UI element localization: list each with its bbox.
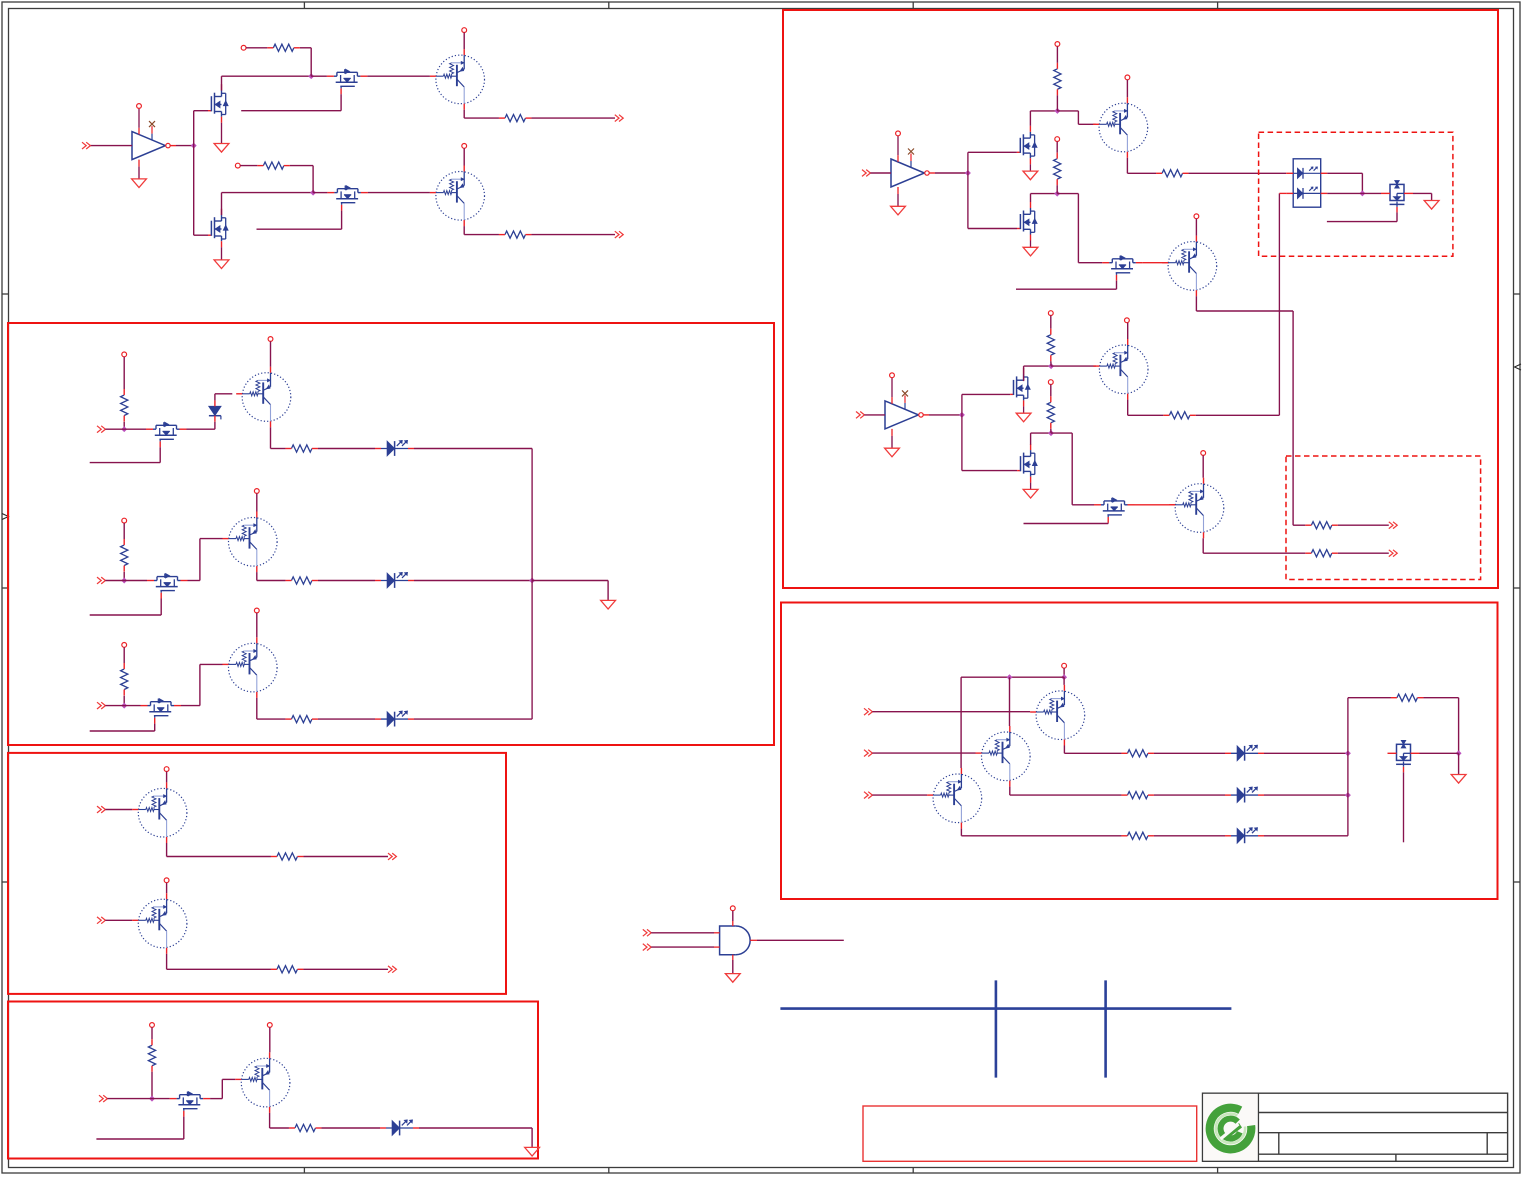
resistor R3a [1047, 329, 1054, 362]
wire U1 input [90, 145, 132, 147]
ground wire under M1 [221, 123, 223, 144]
wire CH2 MOSFET to Q4 base [188, 539, 223, 581]
transistor Q12 pre-biased [976, 726, 1031, 787]
ground wire under M3b [1030, 483, 1032, 490]
wire LED bus vertical [531, 449, 533, 720]
wire CH1 pull-up top [123, 357, 125, 389]
transistor Q10 pre-biased [1169, 478, 1224, 539]
resistor R15 [1121, 792, 1154, 799]
junction R2a node [1054, 108, 1060, 114]
wire M4 gate return [257, 211, 342, 230]
annotation red box [863, 1106, 1197, 1161]
ground bottom-right box [1451, 775, 1466, 784]
wire Q1 output corner [464, 110, 499, 118]
pin VCC R8 pull-up [150, 1023, 155, 1028]
wire Q2 output corner [464, 226, 499, 235]
wire CH1 input [105, 428, 146, 430]
wire bias bus [961, 676, 1064, 678]
wire Q2 emitter supply [463, 148, 465, 165]
wire U2 input [870, 172, 891, 174]
transistor CH1 MOSFET [146, 422, 187, 447]
resistor R2a [1054, 63, 1061, 96]
wire INB to base [105, 919, 132, 921]
wire to M3a gate [962, 393, 1010, 395]
resistor R17 [1391, 694, 1424, 701]
pin VCC Q10 [1201, 451, 1206, 456]
junction R3a node [1048, 363, 1054, 369]
wire Q10 supply [1202, 455, 1204, 477]
wire R3a bottom [1050, 361, 1052, 366]
junction U2 node [965, 170, 971, 176]
pin VCC R2b [1055, 137, 1060, 142]
wire U4 to ground [732, 960, 734, 974]
ground box4 [525, 1147, 540, 1156]
wire R17 down [1423, 698, 1458, 754]
transistor Q4 pre-biased [223, 512, 278, 573]
transistor CH3 MOSFET [141, 699, 182, 724]
ground U4 [725, 974, 740, 983]
transistor Q2 pre-biased [430, 166, 485, 227]
resistor R6 [285, 577, 318, 584]
wire QA output corner [167, 843, 271, 857]
pin VCC QB [164, 878, 169, 883]
resistor R2b [1054, 153, 1061, 186]
LED D6 [1225, 745, 1264, 761]
wire VCC stub [1063, 668, 1065, 677]
bus stub 2 [1104, 980, 1107, 1077]
transistor M10 MOSFET [1388, 741, 1420, 773]
wire M1 drain [222, 76, 312, 90]
wire drop to Q11 [1063, 677, 1065, 685]
wire M7 to Q8 base [1143, 262, 1169, 264]
wire INR1 to Q11 base [872, 711, 1030, 713]
wire Q6 supply [269, 1027, 271, 1052]
junction U1 out node [191, 143, 197, 149]
wire CH3 gate return [90, 724, 155, 731]
left border arrow marker [2, 514, 9, 520]
pin VCC CH3 pull-up [122, 643, 127, 648]
pin VCC Q4 [254, 489, 259, 494]
dashed region box 2 [1286, 456, 1481, 580]
transistor Q7 pre-biased [1093, 97, 1148, 158]
wire R11 to OUTR1 [1338, 524, 1389, 526]
wire Q1 emitter supply [463, 33, 465, 50]
resistor R9 [289, 1124, 322, 1131]
EasyEDA logo [1203, 1094, 1258, 1161]
buffer U2 [891, 131, 935, 206]
wire U3 input [864, 414, 885, 416]
junction R3b node [1048, 430, 1054, 436]
LED D8 [1225, 828, 1264, 844]
buffer U2 ground [891, 206, 906, 215]
LED D7 [1225, 787, 1264, 803]
wire RA to OUTA [303, 856, 388, 858]
junction column 1 [1345, 750, 1351, 756]
AND gate U4 [714, 921, 757, 960]
resistor RA [271, 853, 304, 860]
bus stub 1 [995, 980, 998, 1077]
resistor R11 [1305, 522, 1338, 529]
junction R3/M3 node [310, 190, 316, 196]
wire to M2 gate [311, 75, 327, 77]
wire U4 output [757, 939, 844, 941]
LED D5 [380, 1120, 419, 1136]
wire RB to OUTB [303, 968, 388, 970]
wire Q9 output [1128, 400, 1164, 416]
wire CH3 pull-up bottom [123, 696, 125, 706]
wire Q9 supply [1127, 323, 1129, 339]
transistor CH2 MOSFET [147, 574, 188, 599]
wire gate trunk 3 [961, 394, 963, 470]
wire CH2 gate return [90, 599, 162, 616]
wire Q5 supply [256, 613, 258, 637]
wire R3b bottom [1050, 429, 1052, 433]
wire QA supply [166, 772, 168, 783]
wire M10 to node [1420, 752, 1459, 754]
transistor Q6 pre-biased [235, 1052, 290, 1113]
wire R7 to LED3 [318, 718, 375, 720]
port OUTR2 [1389, 550, 1397, 557]
wire U3 out [929, 414, 962, 416]
wire R1 to node [300, 48, 311, 76]
pin VCC R3a [1048, 311, 1053, 316]
resistor R2 [499, 115, 532, 122]
wire opto LED2 [1327, 192, 1362, 194]
resistor R16 [1121, 832, 1154, 839]
resistor R10 [1156, 170, 1189, 177]
wire U2 out [935, 172, 968, 174]
port INA [643, 929, 651, 936]
resistor R12 [1163, 412, 1196, 419]
right border arrow marker [1515, 364, 1522, 370]
wire R3 to node [290, 166, 313, 193]
junction opto node [1359, 190, 1365, 196]
wire to M2a gate [968, 151, 1017, 153]
resistor R14 [1121, 750, 1154, 757]
pin VCC QA [164, 767, 169, 772]
resistor CH1 pull-up [121, 389, 128, 422]
resistor R3b [1047, 396, 1054, 429]
port IN1 [82, 142, 90, 149]
port IN2 [862, 170, 870, 177]
group box region 4 [8, 1002, 538, 1159]
wire IN4 [107, 1098, 169, 1100]
junction M10 node [1456, 750, 1462, 756]
diode D1 [209, 400, 221, 421]
wire R13 to OUTR2 [1338, 552, 1389, 554]
wire M3 drain [222, 193, 314, 216]
pin VCC U4 [730, 906, 735, 911]
group box region 5 [781, 603, 1498, 900]
wire LED D6 to column [1264, 752, 1348, 754]
buffer U3 [885, 373, 929, 448]
wire R10 to opto [1189, 172, 1287, 174]
ground under M3b [1023, 489, 1038, 498]
resistor CH2 pull-up [121, 539, 128, 572]
wire LED3 to bus [414, 718, 532, 720]
wire M2 to Q1 base [367, 75, 430, 77]
port IN4 [99, 1095, 107, 1102]
port INB [97, 917, 105, 924]
wire M5 gate return [96, 1117, 183, 1139]
buffer U1 ground [132, 179, 147, 188]
wire LED column [1347, 698, 1349, 836]
wire R3 left [240, 165, 257, 167]
wire M2 gate return [241, 94, 341, 111]
pin VCC Q9 [1125, 318, 1130, 323]
transistor Q13 pre-biased [927, 768, 982, 829]
junction CH3 input node [121, 703, 127, 709]
transistor Q1 pre-biased [430, 49, 485, 110]
ground wire under M3a [1023, 406, 1025, 413]
wire LED1 to bus [414, 448, 532, 450]
wire R2a bottom [1056, 95, 1058, 111]
ground LED bus [601, 600, 616, 609]
wire Q12 output corner [1010, 787, 1122, 796]
wire Q3 supply [270, 341, 272, 366]
wire INA [651, 932, 714, 934]
junction U3 node [959, 412, 965, 418]
resistor R13 [1305, 550, 1338, 557]
wire U1 output [176, 145, 194, 147]
pin VCC CH2 pull-up [122, 518, 127, 523]
wire column to R17 [1348, 697, 1391, 699]
transistor Q8 pre-biased [1162, 236, 1217, 297]
bus line horizontal [780, 1007, 1231, 1010]
group box region 1 [783, 10, 1498, 588]
wire gate trunk 2 [967, 152, 969, 228]
wire CH3 MOSFET to Q5 base [181, 664, 223, 705]
port INA [97, 806, 105, 813]
port CH3 input [97, 702, 105, 709]
wire to M4 gate [313, 192, 327, 194]
wire bus to ground [532, 581, 608, 601]
junction bias bus right [1061, 674, 1067, 680]
wire U4 vcc [732, 911, 734, 921]
wire diode to Q3 base [215, 394, 232, 401]
port INR3 [864, 792, 872, 799]
title block table [1203, 1093, 1508, 1161]
ground wire under M2b [1030, 241, 1032, 248]
wire rail to Q9 base [1051, 365, 1096, 367]
wire M9 to Q10 base [1135, 504, 1176, 506]
wire INR2 to Q12 base [872, 752, 975, 754]
ground wire under M2a [1029, 164, 1031, 171]
port CH1 input [97, 426, 105, 433]
wire to M3 gate [194, 234, 208, 236]
wire R2a top [1056, 46, 1058, 62]
wire gate trunk 1 [193, 111, 195, 236]
wire rail to Q7 base [1057, 111, 1095, 124]
wire M5 to Q6 base [210, 1079, 235, 1098]
transistor QA pre-biased [132, 782, 187, 843]
wire R5 to LED1 [318, 448, 375, 450]
transistor M2 PMOS [327, 69, 368, 94]
junction column 2 [1345, 792, 1351, 798]
wire M3a drain rail [1024, 366, 1052, 381]
ground wire under M3 [221, 247, 223, 260]
wire M2b drain rail [1031, 194, 1058, 202]
wire to OUT2 [531, 234, 615, 236]
dashed region box 1 [1259, 132, 1453, 256]
LED D4 [375, 711, 414, 727]
wire R8 top [151, 1027, 153, 1039]
transistor M9 MOSFET [1094, 498, 1135, 523]
wire CH2 pull-up top [123, 523, 125, 539]
wire Q4 supply [256, 493, 258, 511]
pin VCC R2a [1055, 42, 1060, 47]
wire CH1 gate return [90, 447, 161, 462]
port OUTA [388, 853, 396, 860]
resistor RB [271, 966, 304, 973]
wire R9 to LED4 [321, 1127, 380, 1129]
resistor R1 [267, 44, 300, 51]
buffer U1 [132, 104, 176, 179]
wire Q5 output corner [257, 698, 286, 719]
wire Q7 output [1127, 158, 1156, 174]
wire Q11 output corner [1064, 746, 1121, 754]
transistor M2b NMOS [1017, 202, 1037, 241]
wire Q7 supply [1126, 80, 1128, 97]
wire to M2b gate [968, 228, 1017, 230]
wire Q8 supply [1195, 219, 1197, 236]
pin VCC CH1 pull-up [122, 352, 127, 357]
ground under M1 [214, 144, 229, 153]
wire R14 to LED [1154, 752, 1225, 754]
wire M2a drain rail [1030, 111, 1057, 126]
wire R2b top [1056, 142, 1058, 153]
wire Q10 output [1203, 538, 1305, 553]
pin VCC R1 [241, 45, 246, 50]
ground under M2b [1023, 247, 1038, 256]
ground under M2a [1023, 171, 1038, 180]
resistor R5 [285, 445, 318, 452]
pin VCC Q8 [1194, 214, 1199, 219]
wire INA to base [105, 809, 132, 811]
pin VCC Q1 [462, 28, 467, 33]
transistor Q5 pre-biased [223, 637, 278, 698]
resistor R8 pull-up [148, 1039, 155, 1072]
transistor M5 MOSFET [170, 1092, 211, 1117]
pin VCC R3b [1048, 380, 1053, 385]
transistor M2a NMOS [1017, 126, 1037, 165]
wire CH3 pull-up top [123, 647, 125, 663]
wire R1 left [246, 47, 267, 49]
pin VCC Q5 [254, 608, 259, 613]
resistor R4 [499, 231, 532, 238]
wire M10 gate [1403, 772, 1405, 842]
group box region 2 [8, 323, 774, 745]
wire opto to M8 [1362, 192, 1381, 194]
junction box4 input node [149, 1096, 155, 1102]
pin VCC Q3 [268, 337, 273, 342]
port OUT2 [615, 231, 623, 238]
port OUTB [388, 966, 396, 973]
transistor QB pre-biased [132, 893, 187, 954]
wire R6 to LED2 [318, 580, 375, 582]
junction CH1 input node [121, 426, 127, 432]
dual LED package DL1 [1286, 159, 1327, 207]
wire LED4 to ground [419, 1128, 532, 1147]
transistor M7 MOSFET [1102, 256, 1143, 281]
wire R12 to feedback [1196, 414, 1280, 416]
wire to OUT1 [531, 117, 615, 119]
wire R8 bottom [151, 1072, 153, 1099]
transistor M4 PMOS [327, 186, 368, 211]
wire LED D8 to column [1264, 835, 1348, 837]
wire opto LED1 to LED2 [1327, 173, 1362, 193]
wire CH1 pull-up bottom [123, 422, 125, 429]
wire LED2 to bus [414, 580, 532, 582]
wire LED D7 to column [1264, 794, 1348, 796]
port CH2 input [97, 577, 105, 584]
wire M9 gate return [1024, 522, 1109, 525]
ground dashed box [1424, 201, 1439, 210]
wire INB [651, 946, 714, 948]
resistor R7 [285, 716, 318, 723]
wire CH2 pull-up bottom [123, 572, 125, 581]
wire INR3 to Q13 base [872, 794, 927, 796]
group box region 3 [8, 753, 506, 994]
wire to M1 gate [194, 110, 208, 112]
wire CH2 input [105, 580, 147, 582]
wire drop to Q12 [1009, 677, 1011, 726]
transistor M3b NMOS [1017, 444, 1037, 483]
wire to M3b gate [962, 470, 1017, 472]
port OUTR1 [1389, 522, 1397, 529]
transistor M8 MOSFET [1381, 181, 1413, 213]
resistor R3 [257, 162, 290, 169]
port IN3 [856, 412, 864, 419]
pin VCC Q2 [462, 144, 467, 149]
junction LED bus [529, 578, 535, 584]
junction R2b node [1054, 191, 1060, 197]
port INB [643, 944, 651, 951]
ground under M3a [1016, 413, 1031, 422]
transistor M1 NMOS [208, 84, 228, 123]
wire CH1 MOSFET to diode [187, 422, 215, 430]
wire R2b bottom [1056, 185, 1058, 193]
wire R3b top [1050, 385, 1052, 397]
junction CH2 input node [121, 578, 127, 584]
port OUT1 [615, 115, 623, 122]
wire M8 to ground [1413, 193, 1432, 200]
resistor CH3 pull-up [121, 663, 128, 696]
wire Q4 output corner [257, 572, 286, 580]
wire QB output corner [167, 954, 271, 970]
wire opto vertical feedback [1278, 193, 1280, 415]
pin VCC Q6 [267, 1023, 272, 1028]
wire R3a top [1050, 316, 1052, 329]
wire QB supply [166, 883, 168, 894]
wire R16 to LED [1154, 835, 1225, 837]
pin VCC bias bus [1062, 663, 1067, 668]
buffer U3 ground [885, 448, 900, 457]
wire Q8 emitter crossover [1196, 296, 1305, 525]
wire Q13 output corner [961, 829, 1121, 836]
wire Q3 output corner [271, 427, 286, 448]
LED D3 [375, 572, 414, 588]
wire R15 to LED [1154, 794, 1225, 796]
wire M3b drain rail [1031, 433, 1051, 445]
wire Q6 output corner [270, 1113, 289, 1128]
transistor M3a NMOS [1010, 368, 1030, 407]
port INR1 [864, 708, 872, 715]
wire rail to M9 [1051, 433, 1094, 505]
pin VCC R3 [235, 163, 240, 168]
transistor Q3 pre-biased [236, 367, 291, 428]
port INR2 [864, 750, 872, 757]
